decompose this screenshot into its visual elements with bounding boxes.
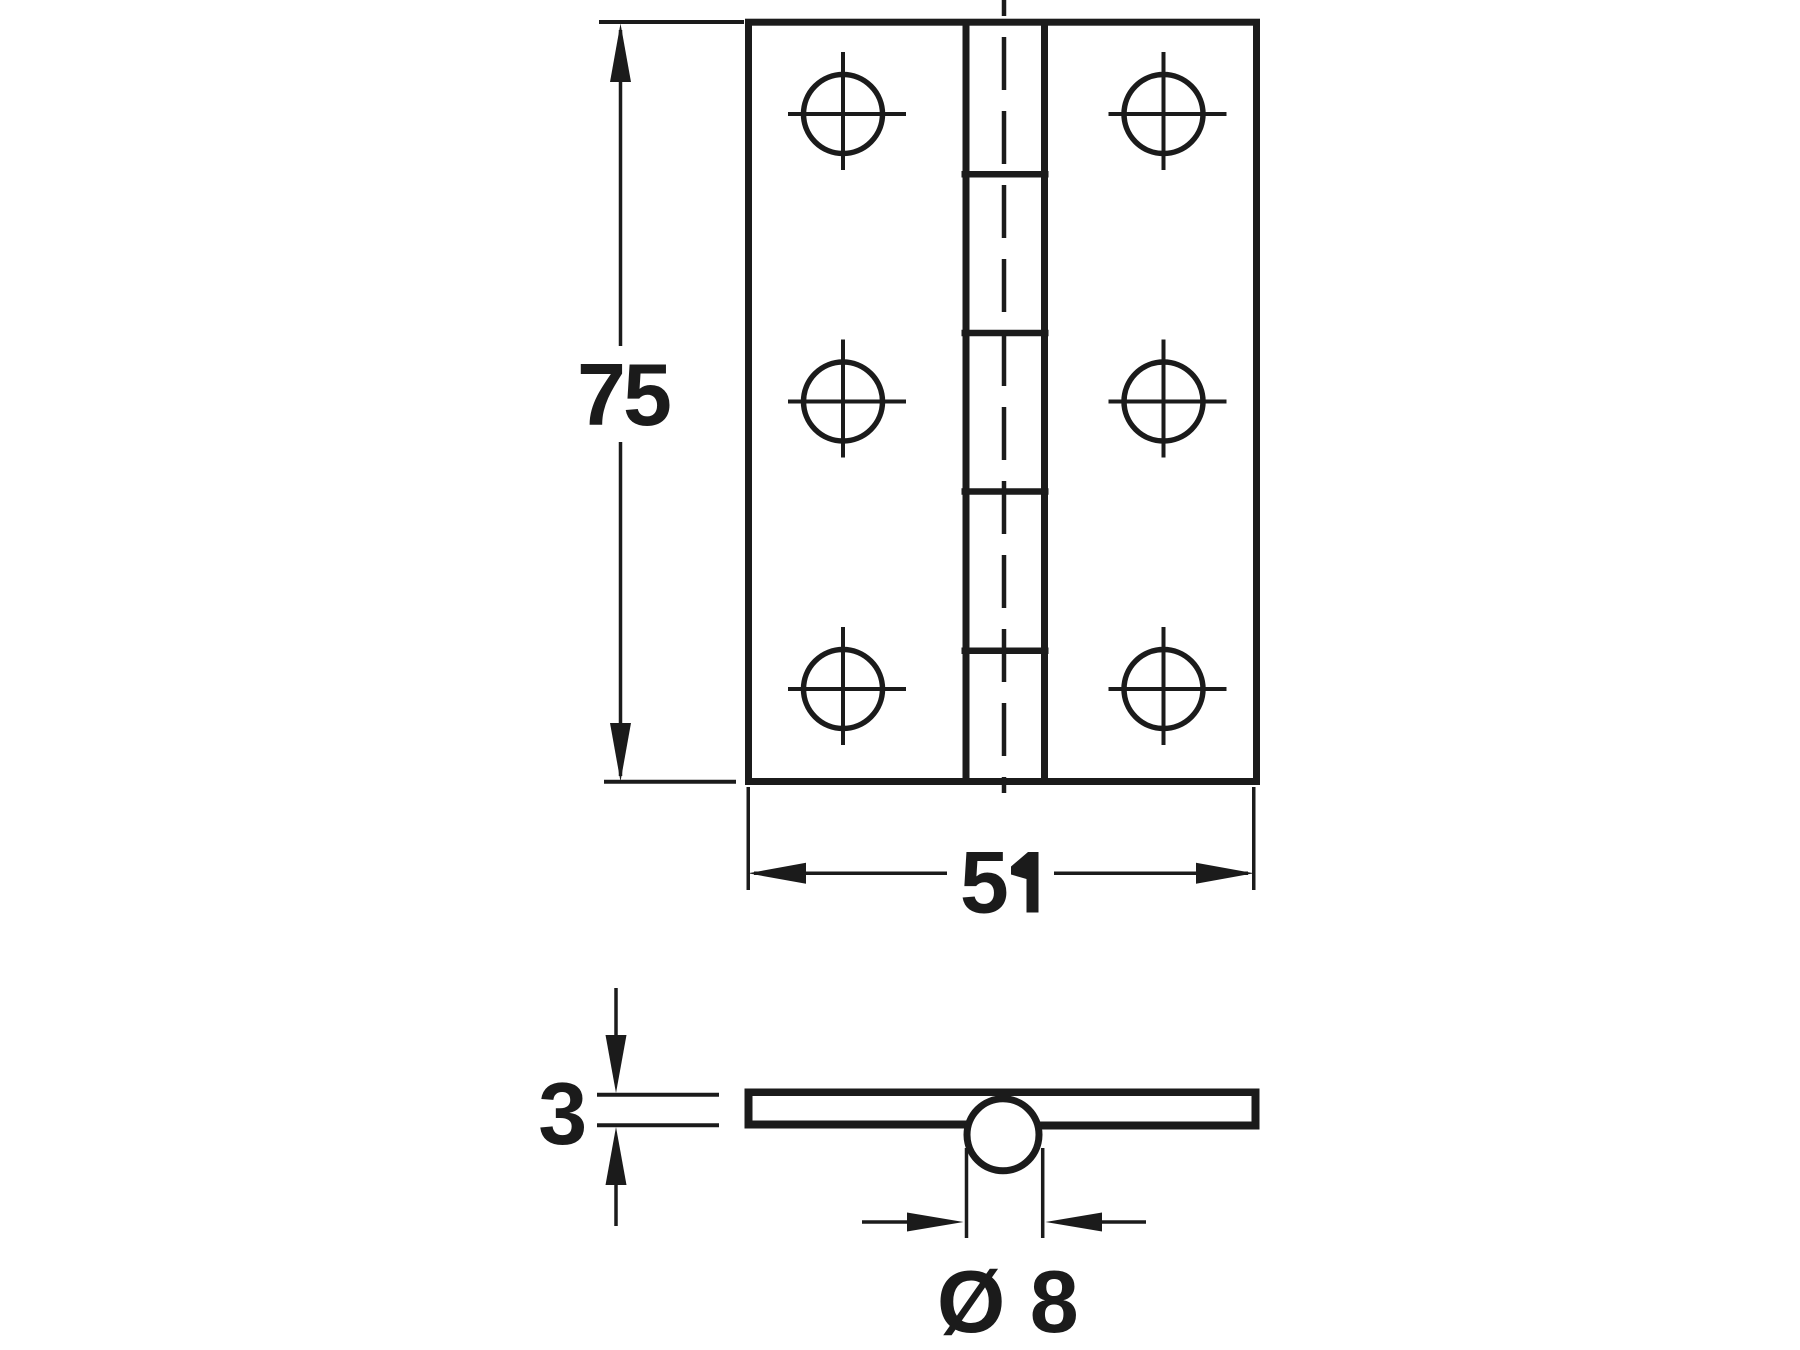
svg-text:3: 3 — [538, 1064, 587, 1163]
side view leaf plate top line — [745, 1089, 1260, 1097]
75 dimension extension line bottom — [604, 780, 736, 784]
diameter 8 arrow left-pointing — [1046, 1213, 1103, 1232]
hinge pin knuckle circle — [967, 1099, 1039, 1171]
75 arrow up — [610, 24, 631, 83]
screw hole top-left — [788, 52, 906, 170]
51 dimension extension line left — [747, 787, 751, 890]
screw hole top-right — [1109, 52, 1227, 170]
side view lower leaf plate bottom-right — [1025, 1122, 1260, 1130]
pin centre chain line — [1002, 0, 1007, 793]
hinge leaf outline (top view) — [749, 22, 1257, 781]
diameter 8 dimension line left tail — [862, 1220, 910, 1224]
knuckle divider 4 — [962, 648, 1049, 655]
3 dimension extension line top — [597, 1093, 719, 1097]
knuckle divider 3 — [962, 488, 1049, 495]
screw hole bottom-right — [1109, 627, 1227, 745]
side view left end cap — [745, 1089, 753, 1129]
screw hole mid-right — [1109, 340, 1227, 458]
75 dimension extension line top — [599, 20, 744, 24]
51 dimension extension line right — [1252, 787, 1256, 890]
3 arrow down — [606, 1035, 627, 1093]
diameter 8 extension line left — [965, 1148, 969, 1238]
51 dimension line — [754, 872, 947, 876]
svg-text:5: 5 — [960, 832, 1009, 931]
3 dimension line upper — [614, 988, 618, 1038]
side view right end cap — [1252, 1089, 1260, 1130]
75 dimension line — [619, 30, 623, 346]
51 arrow right — [1196, 863, 1254, 884]
diameter 8 arrow right-pointing — [907, 1213, 964, 1232]
knuckle right edge line — [1041, 21, 1048, 782]
screw hole mid-left — [788, 340, 906, 458]
51 arrow left — [748, 863, 806, 884]
3 dimension line lower — [614, 1184, 618, 1226]
diameter 8 extension line right — [1041, 1148, 1045, 1238]
knuckle divider 2 — [962, 330, 1049, 337]
knuckle divider 1 — [962, 171, 1049, 178]
svg-text:75: 75 — [577, 345, 670, 444]
75 arrow down — [610, 723, 631, 782]
knuckle left edge line — [963, 21, 970, 782]
3 dimension extension line bottom — [597, 1123, 719, 1127]
diameter 8 dimension line right tail — [1100, 1220, 1146, 1224]
3 arrow up — [606, 1127, 627, 1185]
screw hole bottom-left — [788, 627, 906, 745]
side view lower leaf plate bottom-left — [745, 1121, 981, 1129]
svg-text:Ø 8: Ø 8 — [937, 1252, 1079, 1350]
